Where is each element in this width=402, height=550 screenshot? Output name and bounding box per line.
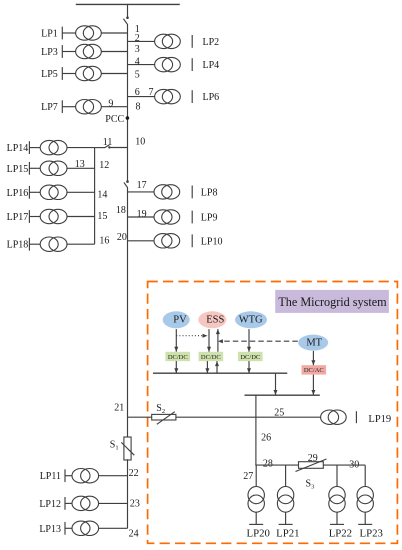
wire <box>255 465 257 487</box>
switch S-11 blade <box>105 145 110 148</box>
wire <box>99 527 128 529</box>
wire DC/DC WTG to bus arrow <box>247 361 251 373</box>
svg-text:DC/DC: DC/DC <box>168 354 188 361</box>
load terminal LP4 <box>191 58 193 71</box>
transformer T-LP22 <box>329 487 345 513</box>
transformer T-LP19 <box>321 410 347 424</box>
switch S3 blade <box>296 459 327 472</box>
wire <box>67 147 95 149</box>
switch S2 body <box>152 414 176 420</box>
transformer T-LP21 <box>277 487 293 513</box>
svg-text:LP17: LP17 <box>7 212 29 223</box>
switch S-11 hinge dot <box>108 146 110 148</box>
wire MT to ESS dashed arrow <box>218 339 298 343</box>
HV source bus bar <box>76 3 180 5</box>
converter DC/AC MT <box>302 365 327 374</box>
wire <box>255 512 257 524</box>
transformer T-LP7 <box>76 100 102 114</box>
transformer T-LP13 <box>72 521 99 535</box>
svg-text:6: 6 <box>135 87 140 98</box>
wire <box>336 465 338 487</box>
wire <box>62 73 75 75</box>
svg-text:LP23: LP23 <box>359 528 382 540</box>
svg-text:4: 4 <box>135 56 140 67</box>
svg-text:ESS: ESS <box>206 314 224 325</box>
svg-text:11: 11 <box>103 137 113 148</box>
microgrid load bus <box>255 464 365 466</box>
wire MT to DC/AC arrow <box>311 351 315 365</box>
wire <box>364 512 366 524</box>
node PCC dot <box>126 116 130 120</box>
wire WTG to DC/DC arrow <box>247 329 251 352</box>
wire <box>99 502 128 504</box>
load terminal LP8 <box>191 186 193 199</box>
svg-text:27: 27 <box>243 471 253 482</box>
svg-text:LP9: LP9 <box>201 213 218 224</box>
MT source ellipse <box>298 335 328 351</box>
switch S3 body <box>299 462 324 469</box>
svg-text:19: 19 <box>137 209 147 220</box>
wire <box>65 475 72 477</box>
svg-text:8: 8 <box>136 101 141 112</box>
PV source ellipse <box>163 311 190 328</box>
wire <box>62 32 75 34</box>
wire DC bus to AC bus arrow <box>274 373 278 395</box>
wire <box>29 147 40 149</box>
switch S2 blade <box>157 412 175 425</box>
wire DC/DC ESS to bus arrow <box>205 361 209 373</box>
svg-text:13: 13 <box>75 159 85 170</box>
wire bus charge to DC/DC arrow <box>215 361 219 373</box>
wire <box>29 191 40 193</box>
transformer T-LP12 <box>72 496 99 510</box>
svg-text:LP20: LP20 <box>246 528 269 540</box>
svg-text:18: 18 <box>116 205 126 216</box>
wire <box>62 51 75 53</box>
wire branch 26 <box>255 395 257 465</box>
WTG source ellipse <box>235 311 267 328</box>
svg-text:LP2: LP2 <box>203 37 220 48</box>
transformer T-LP5 <box>76 66 102 80</box>
microgrid AC bus <box>245 394 320 396</box>
wire <box>128 191 155 193</box>
load terminal LP22 <box>330 523 344 525</box>
transformer T-LP16 <box>40 185 67 199</box>
transformer T-LP2 <box>155 34 181 48</box>
svg-text:LP7: LP7 <box>41 102 58 113</box>
svg-text:24: 24 <box>129 529 139 540</box>
transformer T-LP1 <box>76 26 102 40</box>
svg-text:S3: S3 <box>306 479 315 491</box>
load terminal LP13 <box>64 522 66 535</box>
svg-text:LP19: LP19 <box>368 414 391 425</box>
lateral bus wire <box>94 148 96 245</box>
converter DC/DC WTG <box>238 352 263 361</box>
transformer T-LP17 <box>40 209 67 223</box>
microgrid boundary box <box>148 282 398 544</box>
wire <box>62 106 75 108</box>
svg-text:3: 3 <box>135 44 140 55</box>
load terminal LP11 <box>64 469 66 482</box>
load terminal LP16 <box>28 186 30 199</box>
wire <box>67 191 95 193</box>
wire ESS discharge to DC/DC arrow <box>207 329 211 352</box>
svg-text:LP11: LP11 <box>40 471 61 482</box>
load terminal LP12 <box>64 497 66 510</box>
main feeder bus wire <box>127 25 129 182</box>
load terminal LP21 <box>279 523 293 525</box>
wire <box>101 73 127 75</box>
load terminal LP15 <box>28 162 30 175</box>
load terminal LP20 <box>249 523 263 525</box>
wire <box>99 475 128 477</box>
svg-text:LP8: LP8 <box>201 187 218 198</box>
svg-text:LP21: LP21 <box>276 528 299 540</box>
load terminal LP3 <box>61 45 63 58</box>
wire <box>65 527 72 529</box>
wire <box>101 106 127 108</box>
transformer T-LP15 <box>40 161 67 175</box>
svg-text:5: 5 <box>135 70 140 81</box>
svg-text:10: 10 <box>135 137 145 148</box>
load terminal LP18 <box>28 238 30 251</box>
svg-text:LP10: LP10 <box>201 236 223 247</box>
wire PV to DC/DC arrow <box>174 329 178 352</box>
svg-text:17: 17 <box>137 180 147 191</box>
wire <box>67 167 95 169</box>
wire <box>29 167 40 169</box>
svg-text:15: 15 <box>97 211 107 222</box>
wire DC/DC PV to bus arrow <box>174 361 178 373</box>
ESS source ellipse <box>198 311 226 328</box>
transformer T-LP6 <box>155 89 181 103</box>
wire <box>109 147 127 149</box>
switch QS1 blade <box>123 19 127 25</box>
switch QS2 blade <box>124 182 128 187</box>
transformer T-LP3 <box>76 44 102 58</box>
switch QS1 hinge dot <box>126 16 129 19</box>
svg-text:DC/DC: DC/DC <box>240 354 260 361</box>
svg-text:LP13: LP13 <box>39 524 61 535</box>
wire DC/DC charge to ESS arrow <box>216 329 220 352</box>
wire <box>101 51 127 53</box>
svg-text:MT: MT <box>306 337 322 348</box>
svg-text:9: 9 <box>108 99 113 110</box>
switch S1 body <box>124 437 131 460</box>
load terminal LP10 <box>191 234 193 247</box>
wire <box>29 243 40 245</box>
wire PV to ESS dotted arrow <box>176 334 207 338</box>
svg-text:DC/AC: DC/AC <box>304 367 324 374</box>
svg-text:12: 12 <box>99 160 109 171</box>
load terminal LP14 <box>28 141 30 154</box>
transformer T-LP18 <box>40 237 67 251</box>
svg-text:PV: PV <box>173 314 187 325</box>
svg-text:LP16: LP16 <box>7 188 29 199</box>
svg-text:16: 16 <box>99 236 109 247</box>
svg-text:2: 2 <box>135 33 140 44</box>
svg-text:LP18: LP18 <box>7 240 29 251</box>
transformer T-LP4 <box>155 57 181 71</box>
svg-text:PCC: PCC <box>105 114 124 125</box>
microgrid DC bus <box>153 372 287 374</box>
wire <box>285 512 287 524</box>
wire <box>128 64 155 66</box>
load terminal LP2 <box>191 35 193 48</box>
svg-text:LP22: LP22 <box>329 528 352 540</box>
wire <box>101 32 127 34</box>
load terminal LP19 <box>355 411 357 423</box>
svg-text:LP6: LP6 <box>203 92 220 103</box>
svg-text:LP14: LP14 <box>7 143 29 154</box>
load terminal LP17 <box>28 210 30 223</box>
wire <box>95 147 105 149</box>
transformer T-LP10 <box>154 234 180 248</box>
svg-text:LP3: LP3 <box>41 47 58 58</box>
svg-text:28: 28 <box>263 458 273 469</box>
wire node21 feeder <box>128 416 321 418</box>
transformer T-LP14 <box>40 140 67 154</box>
wire <box>285 465 287 487</box>
transformer T-LP20 <box>248 487 264 513</box>
wire <box>65 502 72 504</box>
wire <box>67 243 95 245</box>
svg-text:26: 26 <box>261 433 271 444</box>
transformer T-LP9 <box>154 210 180 224</box>
main feeder bus wire <box>127 459 129 528</box>
load terminal LP9 <box>191 211 193 224</box>
load terminal LP6 <box>191 90 193 103</box>
svg-text:LP15: LP15 <box>7 164 29 175</box>
wire <box>128 40 155 42</box>
transformer T-LP11 <box>72 469 99 483</box>
wire <box>29 216 40 218</box>
wire <box>127 4 129 17</box>
svg-text:LP1: LP1 <box>41 29 58 40</box>
svg-text:21: 21 <box>114 402 124 413</box>
switch S1 blade <box>121 442 134 455</box>
svg-text:S1: S1 <box>110 439 119 451</box>
wire <box>128 96 155 98</box>
svg-text:14: 14 <box>97 190 107 201</box>
wire <box>364 465 366 487</box>
svg-text:LP12: LP12 <box>39 499 61 510</box>
wire <box>336 512 338 524</box>
converter DC/DC PV <box>165 352 190 361</box>
svg-text:LP5: LP5 <box>41 69 58 80</box>
svg-text:S2: S2 <box>156 403 165 415</box>
microgrid title box <box>275 290 389 313</box>
wire <box>128 240 155 242</box>
converter DC/DC ESS <box>199 352 224 361</box>
svg-text:DC/DC: DC/DC <box>201 354 221 361</box>
load terminal LP7 <box>61 100 63 113</box>
svg-text:20: 20 <box>117 232 127 243</box>
load terminal LP23 <box>358 523 372 525</box>
transformer T-LP23 <box>357 487 373 513</box>
load terminal LP5 <box>61 67 63 80</box>
svg-text:23: 23 <box>130 499 140 510</box>
svg-text:The Microgrid system: The Microgrid system <box>278 295 387 309</box>
main feeder bus wire <box>127 188 129 438</box>
wire <box>128 216 155 218</box>
load terminal LP1 <box>61 27 63 40</box>
svg-text:LP4: LP4 <box>203 60 220 71</box>
svg-text:7: 7 <box>149 87 154 98</box>
switch QS2 hinge dot <box>126 180 129 183</box>
svg-text:22: 22 <box>129 468 139 479</box>
wire <box>67 216 95 218</box>
transformer T-LP8 <box>154 185 180 199</box>
wire DC/AC to AC-bus arrow <box>311 375 315 395</box>
svg-text:WTG: WTG <box>239 314 263 325</box>
